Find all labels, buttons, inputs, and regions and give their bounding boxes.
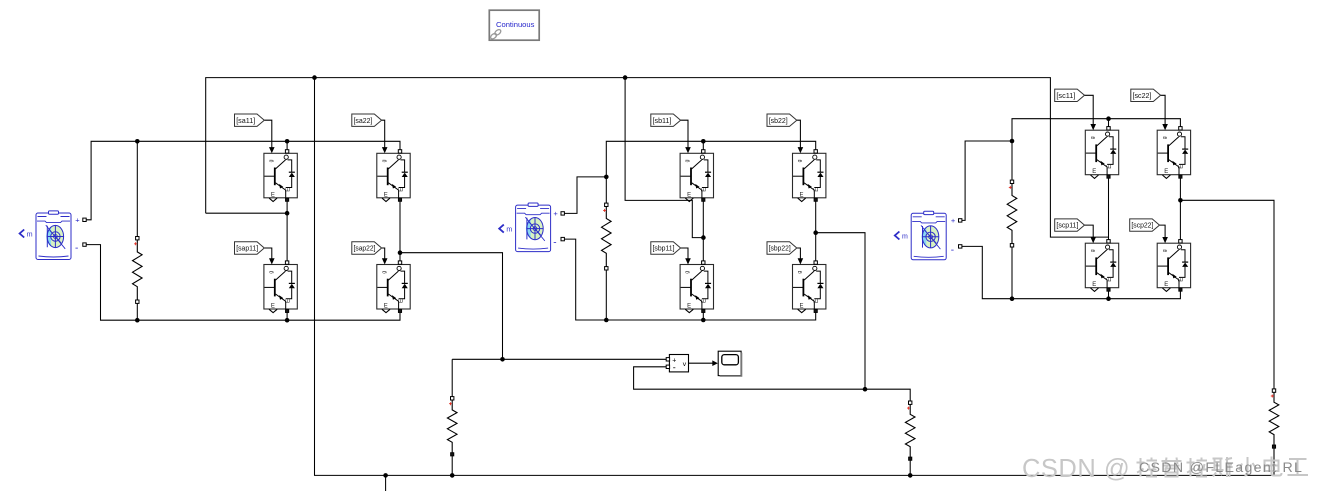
IGBT sap11: [264, 258, 297, 312]
wire gate [scp22]: [1160, 225, 1166, 239]
battery EB + port: [553, 209, 564, 218]
from tag [sc22]: [1131, 89, 1161, 101]
arrowhead into scope: [712, 360, 718, 366]
svg-text:+: +: [553, 209, 558, 218]
powergui block (Continuous): [489, 10, 539, 40]
junction rail B / sb11 C: [701, 139, 706, 144]
IGBT sbp22: [793, 258, 826, 312]
wire load resistor R2 bottom lead: [451, 454, 453, 475]
wire phase B leg1 midpoint column: [702, 198, 704, 265]
node A leg2 midpoint: [398, 250, 403, 255]
wire resistor Ra top lead: [136, 141, 138, 238]
from tag [sb22]: [767, 114, 797, 126]
wire gate [sbp22]: [797, 248, 801, 261]
wire scp11 emitter stub: [1108, 288, 1110, 299]
from tag [sbp11]: [651, 242, 681, 254]
wire gate [sbp11]: [681, 248, 688, 261]
svg-text:m: m: [506, 226, 512, 233]
wire phase B leg2 midpoint column: [815, 198, 817, 265]
battery EC + port: [951, 216, 962, 225]
junction neutral rail / R3: [908, 473, 913, 478]
svg-text:-: -: [673, 363, 676, 373]
wire resistor Rb top lead: [605, 177, 607, 205]
from tag [sap22]: [352, 242, 382, 254]
wire gate [scp11]: [1085, 225, 1094, 239]
svg-text:[sc11]: [sc11]: [1056, 91, 1075, 100]
battery EA m output arrow: [20, 230, 33, 239]
junction bottom rail A / sap11 E: [285, 318, 290, 323]
junction rail C / sc11 C: [1106, 116, 1111, 121]
battery EC: [911, 211, 946, 260]
wire sb11 collector stub: [702, 141, 704, 153]
svg-text:Continuous: Continuous: [496, 20, 535, 29]
junction V+ / phase A output: [500, 357, 505, 362]
svg-text:CSDN @: CSDN @: [1022, 455, 1130, 483]
scope block: [718, 351, 741, 376]
svg-text:-: -: [951, 245, 954, 256]
battery EB - port: [553, 237, 564, 248]
wire phase B output down: [816, 233, 865, 390]
IGBT sc22: [1157, 124, 1190, 178]
wire load resistor R2 top lead: [451, 359, 453, 398]
wire battery C - to bottom rail C: [962, 246, 1180, 298]
svg-text:[sa22]: [sa22]: [354, 116, 373, 125]
svg-text:[sbp22]: [sbp22]: [769, 244, 791, 253]
battery EB: [516, 203, 551, 252]
node B leg1 midpoint: [701, 235, 706, 240]
wire phase A leg2 midpoint column: [399, 198, 401, 265]
wire DC rail B: [606, 141, 815, 177]
junction bottom rail C / Rc: [1010, 296, 1015, 301]
voltmeter U1 (Voltage Measurement): [666, 355, 688, 373]
svg-text:m: m: [902, 233, 908, 240]
wire sa11 collector stub: [286, 141, 288, 153]
wire resistor Rc bottom lead: [1011, 245, 1013, 298]
wire phase C leg1 midpoint column: [1108, 175, 1110, 244]
wire phase A output to load: [400, 253, 503, 360]
wire voltmeter to scope: [689, 362, 714, 364]
svg-text:+: +: [75, 216, 80, 225]
wire gate [sap22]: [382, 248, 385, 261]
svg-text:[sb11]: [sb11]: [653, 116, 672, 125]
junction bottom rail B / Rb: [604, 318, 609, 323]
wire battery A - to bottom rail A: [86, 245, 400, 321]
IGBT scp22: [1157, 237, 1190, 291]
IGBT sa11: [264, 147, 297, 201]
battery EC m output arrow: [895, 232, 908, 241]
from tag [sc11]: [1055, 89, 1085, 101]
svg-text:-: -: [553, 238, 556, 249]
junction bus/phase B drop: [623, 75, 628, 80]
svg-text:[sap11]: [sap11]: [236, 244, 258, 253]
svg-text:v: v: [683, 361, 687, 368]
junction neutral rail / stub: [383, 473, 388, 478]
resistor Ra (phase A parallel): [133, 237, 143, 304]
wire phase C output to load resistor R4: [1180, 200, 1274, 390]
svg-text:[sb22]: [sb22]: [769, 116, 788, 125]
svg-text:[sa11]: [sa11]: [236, 116, 255, 125]
wire gate [sb22]: [797, 120, 801, 149]
svg-text:[scp22]: [scp22]: [1131, 221, 1153, 230]
IGBT sbp11: [680, 258, 713, 312]
node N neutral top bus: [206, 78, 1109, 238]
resistor R2 (phase A load): [447, 397, 457, 456]
wire sap11 emitter stub: [286, 309, 288, 320]
node B leg2 midpoint: [813, 230, 818, 235]
junction V- / phase B output: [863, 387, 868, 392]
wire gate [sc11]: [1085, 95, 1094, 126]
wire battery B + node: [564, 177, 606, 214]
watermark big: CSDN @(lapulasi xiao diangong): [1022, 455, 1308, 483]
svg-text:[sc22]: [sc22]: [1133, 91, 1152, 100]
battery EB m output arrow: [499, 225, 512, 234]
wire load resistor R4 bottom lead: [1273, 447, 1275, 476]
svg-text:[sbp11]: [sbp11]: [653, 244, 675, 253]
from tag [sa22]: [352, 114, 382, 126]
junction rail A / sa11 C: [285, 139, 290, 144]
wire phase A leg1 midpoint to bus: [206, 212, 287, 214]
junction battery B + node: [604, 175, 609, 180]
wire phase C leg2 midpoint column: [1179, 175, 1181, 244]
IGBT scp11: [1085, 237, 1118, 291]
svg-text:-: -: [75, 243, 78, 254]
node A leg1 midpoint: [285, 211, 290, 216]
IGBT sb22: [793, 147, 826, 201]
wire neutral mid drop and bottom rail: [315, 78, 1275, 476]
wire neutral to phase B leg1 midpoint: [625, 78, 703, 238]
junction rail A / Ra: [135, 139, 140, 144]
wire sbp11 emitter stub: [702, 309, 704, 320]
resistor Rc (phase C parallel): [1007, 180, 1017, 247]
resistor R3 (phase B load): [905, 401, 915, 460]
junction bottom rail B / sbp11 E: [701, 318, 706, 323]
battery EC - port: [951, 245, 962, 256]
IGBT sc11: [1085, 124, 1118, 178]
IGBT sap22: [377, 258, 410, 312]
from tag [sb11]: [651, 114, 681, 126]
svg-text:m: m: [27, 231, 33, 238]
wire DC rail C: [1012, 119, 1180, 141]
battery EA + port: [75, 216, 86, 225]
IGBT sb11: [680, 147, 713, 201]
wire V+ sense: [452, 358, 666, 360]
junction battery C + node: [1010, 139, 1015, 144]
wire gate [sa11]: [264, 120, 272, 149]
wire load resistor R3 bottom lead: [909, 459, 911, 476]
wire gate [sap11]: [264, 248, 272, 261]
svg-text:[sap22]: [sap22]: [354, 244, 376, 253]
wire resistor Ra bottom lead: [136, 302, 138, 321]
from tag [sa11]: [235, 114, 265, 126]
junction bottom rail C / scp11 E: [1106, 296, 1111, 301]
wire phase A leg1 midpoint column: [286, 198, 288, 265]
svg-text:CSDN @FLEagent RL: CSDN @FLEagent RL: [1139, 460, 1303, 476]
wire gate [sb11]: [681, 120, 688, 149]
wire gate [sc22]: [1161, 95, 1166, 126]
wire resistor Rb bottom lead: [605, 268, 607, 320]
wire gate [sa22]: [382, 120, 385, 149]
junction bus/neutral drop: [312, 75, 317, 80]
resistor Rb (phase B parallel): [602, 203, 612, 270]
from tag [scp11]: [1055, 219, 1085, 231]
battery EA: [36, 211, 71, 260]
svg-text:[scp11]: [scp11]: [1056, 221, 1078, 230]
wire battery A + to DC rail A: [86, 141, 400, 220]
wire resistor Rc top lead: [1011, 141, 1013, 182]
wire sc11 collector stub: [1108, 119, 1110, 131]
wire battery C + node: [962, 141, 1012, 220]
junction bottom rail A / Ra: [135, 318, 140, 323]
junction neutral rail / R2: [450, 473, 455, 478]
wire battery B - to bottom rail B: [564, 239, 815, 320]
from tag [sbp22]: [767, 242, 797, 254]
from tag [sap11]: [235, 242, 265, 254]
IGBT sa22: [377, 147, 410, 201]
battery EA - port: [75, 243, 86, 254]
from tag [scp22]: [1130, 219, 1160, 231]
svg-text:+: +: [951, 216, 956, 225]
resistor R4 (phase C load): [1269, 389, 1279, 448]
node C leg2 midpoint: [1178, 198, 1183, 203]
wire V- sense: [634, 367, 911, 403]
wire neutral stub down: [385, 475, 387, 491]
